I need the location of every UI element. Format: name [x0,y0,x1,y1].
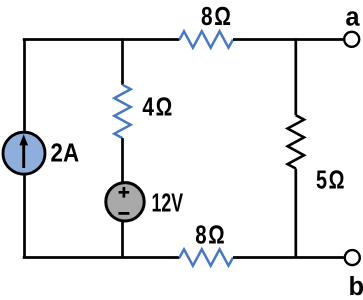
current source arrow head [19,134,28,145]
current source arrow shaft [22,142,25,168]
wire bottom left segment [23,256,180,259]
voltage source 12V body [106,183,144,221]
svg-text:2A: 2A [51,140,80,168]
wire middle branch bottom [121,220,124,258]
terminal a [344,32,359,47]
resistor 8ohm bottom [180,249,233,265]
wire middle branch top [121,38,124,85]
wire bottom right segment [233,256,344,259]
resistor 5ohm [288,115,304,168]
terminal b [345,250,360,265]
voltage source plus sign [119,187,130,198]
wire left vertical [23,40,26,258]
svg-text:12V: 12V [152,190,184,218]
svg-text:a: a [345,4,360,32]
wire right branch lower [294,169,297,258]
svg-text:5Ω: 5Ω [316,167,346,195]
svg-text:8Ω: 8Ω [195,222,226,250]
resistor 8ohm top [180,31,233,47]
current source 2A body [3,132,45,174]
wire top right segment [233,38,343,41]
svg-text:8Ω: 8Ω [201,3,233,31]
voltage source minus sign [118,212,129,215]
wire top left segment [23,38,180,41]
wire right branch upper [294,38,297,115]
svg-text:4Ω: 4Ω [142,93,174,121]
wire middle branch mid [121,138,124,185]
resistor 4ohm [114,85,130,138]
svg-text:b: b [349,273,363,300]
